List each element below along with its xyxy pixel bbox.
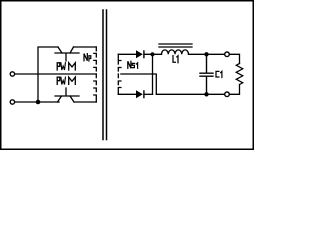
- winding Ns1 secondary: [118, 54, 121, 94]
- wire output top to resistor: [229, 54, 239, 63]
- terminal input bottom: [10, 100, 14, 104]
- node output - circle: [225, 92, 230, 97]
- node output + circle: [225, 52, 230, 57]
- wire vertical from bottom junction up: [38, 47, 58, 102]
- wire Q2 collector to Np bottom: [74, 101, 96, 103]
- wire D2 cathode to corner: [145, 93, 153, 95]
- wire D1 cathode to junction: [145, 53, 162, 55]
- wire output return rail: [156, 93, 224, 95]
- label C1: [216, 71, 222, 77]
- wire L1 right to output: [189, 53, 225, 55]
- inductor L1 core bars: [159, 44, 192, 47]
- wire Ns1 bottom to D2: [118, 93, 136, 95]
- wire top input to Np center tap: [15, 73, 96, 75]
- inductor L1: [162, 50, 189, 54]
- label Np: [84, 54, 91, 61]
- wire Ns1 center tap: [121, 74, 156, 94]
- label PWM bottom: [57, 77, 75, 84]
- terminal input top: [10, 72, 14, 76]
- transistor Q1: [55, 47, 79, 61]
- junction dot input: [36, 100, 41, 105]
- wire Q1 collector to Np top: [74, 46, 97, 48]
- wire bottom input: [15, 101, 59, 103]
- resistor load zigzag: [236, 64, 243, 85]
- junction dot diodes: [150, 52, 154, 56]
- junction dot C1 top: [204, 52, 208, 56]
- label L1: [173, 56, 178, 63]
- label Ns1: [128, 61, 138, 68]
- wire resistor bottom to output return: [229, 85, 239, 95]
- junction dot C1 bottom: [204, 92, 208, 96]
- capacitor C1: [200, 54, 213, 94]
- border frame: [1, 1, 254, 150]
- transistor Q2: [55, 88, 79, 102]
- diode D1: [136, 50, 143, 58]
- wire Ns1 top to D1: [118, 53, 136, 55]
- wire D2 branch vertical: [152, 54, 154, 94]
- winding Np primary: [94, 47, 97, 102]
- transformer core: [103, 10, 107, 140]
- label PWM top: [57, 63, 75, 70]
- diode D2: [136, 90, 143, 98]
